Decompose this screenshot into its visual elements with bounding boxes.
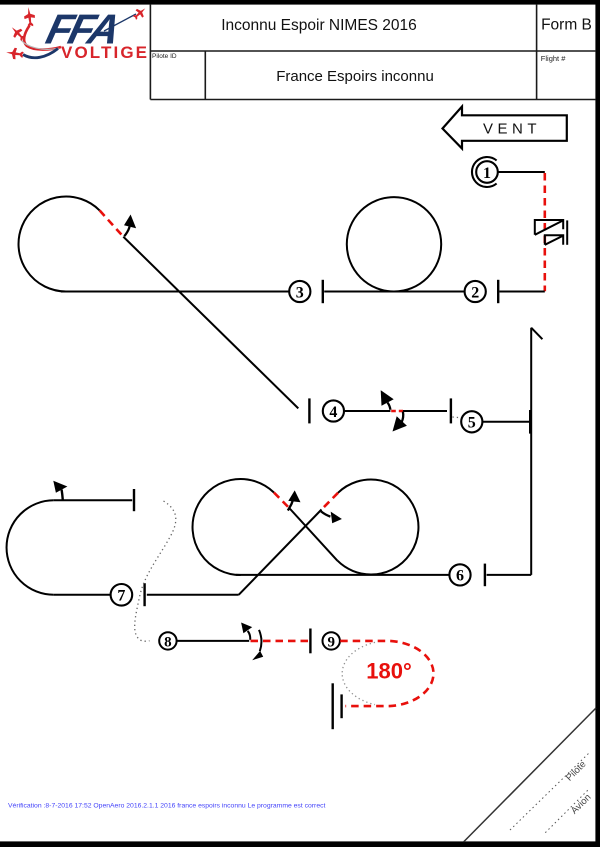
figure 6 diagonal down-right bbox=[289, 508, 337, 561]
pilote dotted line bbox=[510, 753, 589, 830]
figure 3 inverted segment red dashed bbox=[100, 210, 124, 236]
figure 8 red dashed exit bbox=[251, 640, 310, 643]
blue line to plane bbox=[104, 14, 136, 31]
circle 4 label bbox=[323, 400, 344, 421]
circle 2 label bbox=[465, 281, 486, 302]
gray swoosh bbox=[21, 40, 59, 50]
figure 6 bottom line bbox=[236, 574, 449, 576]
circle 8 label bbox=[159, 632, 176, 650]
circle 9 label bbox=[323, 632, 340, 650]
figure 5/6 vertical line bbox=[530, 328, 532, 575]
FFA letters bbox=[42, 6, 126, 53]
avion dotted line bbox=[545, 789, 589, 833]
figure 1 end tick bbox=[497, 280, 499, 303]
figure 2 line between 2 and 3 bbox=[324, 291, 464, 293]
figure 6 diagonal up-right bbox=[239, 510, 322, 595]
figure 6 left red dash bbox=[274, 493, 289, 509]
figure 1 entry line bbox=[498, 171, 545, 173]
figure 6 lower entry line bbox=[147, 594, 239, 596]
figure 9 dotted back half bbox=[342, 642, 375, 704]
circle 5 label bbox=[461, 411, 482, 432]
FFA Voltige logo bbox=[5, 5, 148, 62]
figure 7 bottom line bbox=[54, 594, 111, 596]
svg-text:2: 2 bbox=[471, 284, 479, 301]
figure 5 tick bbox=[529, 410, 531, 434]
svg-text:9: 9 bbox=[327, 634, 335, 650]
svg-text:6: 6 bbox=[456, 568, 464, 585]
figure 1 start marker circle 1 bbox=[472, 157, 498, 187]
red plane top bbox=[23, 6, 36, 27]
svg-text:7: 7 bbox=[117, 588, 125, 605]
navy swoosh bbox=[23, 49, 58, 58]
svg-text:180°: 180° bbox=[366, 659, 412, 684]
figure 6 tick bbox=[484, 564, 486, 587]
figure 4 line right part bbox=[403, 410, 447, 412]
wind direction arrow bbox=[443, 107, 567, 149]
figure 1 spin symbol bbox=[535, 220, 567, 245]
red plane lower-left bbox=[5, 47, 24, 61]
circle 7 label bbox=[111, 584, 133, 606]
figure 7 arrow bbox=[53, 481, 67, 500]
svg-text:4: 4 bbox=[329, 404, 337, 421]
figure 8 entry line bbox=[177, 640, 250, 642]
circle 6 label bbox=[449, 564, 470, 585]
svg-text:5: 5 bbox=[468, 415, 476, 432]
svg-text:Inconnu Espoir NIMES 2016: Inconnu Espoir NIMES 2016 bbox=[221, 17, 417, 34]
circle 3 label bbox=[289, 281, 310, 302]
svg-text:1: 1 bbox=[483, 165, 491, 182]
figure 8 end tick bbox=[309, 629, 311, 654]
svg-text:VENT: VENT bbox=[483, 121, 541, 138]
svg-text:8: 8 bbox=[164, 634, 172, 650]
figure 4 end tick bbox=[450, 398, 452, 423]
figure 6 left loop arc bbox=[193, 479, 274, 575]
figure 2 loop circle bbox=[347, 197, 441, 291]
sequence end bar bbox=[332, 683, 334, 729]
figure 3 45 down line bbox=[123, 237, 298, 409]
svg-text:3: 3 bbox=[296, 284, 304, 301]
figure 6 arrow right bbox=[321, 511, 342, 523]
figure 4 red dashes bbox=[391, 410, 403, 413]
figure 8 half roll arrows bbox=[241, 623, 263, 661]
red plane right bbox=[131, 5, 149, 22]
figure 1 exit line bbox=[500, 291, 545, 293]
corner signature diagonal bbox=[464, 708, 597, 842]
header box lines bbox=[150, 4, 596, 100]
figure 1 inverted down line (red dashed) bbox=[543, 173, 546, 291]
figure 6 right loop main arc bbox=[338, 480, 418, 575]
svg-text:France Espoirs inconnu: France Espoirs inconnu bbox=[276, 68, 434, 85]
red swoosh bbox=[24, 26, 61, 50]
figure 5 top hook bbox=[531, 328, 542, 340]
figure 3 loop arc bbox=[19, 197, 100, 292]
svg-text:Vérification :8-7-2016 17:52 O: Vérification :8-7-2016 17:52 OpenAero 20… bbox=[8, 803, 325, 810]
figure 6 right red dash bbox=[322, 493, 339, 510]
red plane upper-left bbox=[8, 23, 27, 42]
page border top bar bbox=[0, 0, 600, 5]
figure 4 roll arrow down bbox=[393, 412, 407, 432]
figure 7 top line bbox=[54, 499, 132, 501]
figure 6 right loop lower-left arc bbox=[337, 561, 371, 575]
figure 9 red dashed turn bbox=[340, 641, 433, 706]
svg-text:Pilote ID: Pilote ID bbox=[152, 53, 177, 60]
svg-text:Flight #: Flight # bbox=[541, 54, 566, 63]
figure 3 roll arrow bbox=[124, 215, 136, 237]
figure 3 entry line bbox=[61, 291, 289, 293]
figure 9 end tick bbox=[340, 694, 342, 718]
dotted connector 7 to 8 bbox=[135, 501, 176, 641]
figure 4 start tick bbox=[308, 398, 310, 423]
figure 6 arrow up bbox=[288, 490, 301, 510]
connector dotted 4-5 bbox=[453, 417, 465, 418]
figure 4 roll arrow up bbox=[381, 390, 394, 410]
figure 5 entry line bbox=[483, 421, 532, 423]
page border bottom bar bbox=[0, 841, 600, 847]
figure 7 end tick bbox=[143, 583, 145, 606]
svg-text:Form B: Form B bbox=[541, 17, 592, 34]
figure 2 start tick bbox=[322, 280, 324, 303]
page border right bar bbox=[595, 0, 600, 847]
figure 7 half loop arc bbox=[7, 500, 54, 595]
figure 4 line left part bbox=[344, 410, 390, 412]
figure 7 tick bbox=[133, 489, 135, 511]
